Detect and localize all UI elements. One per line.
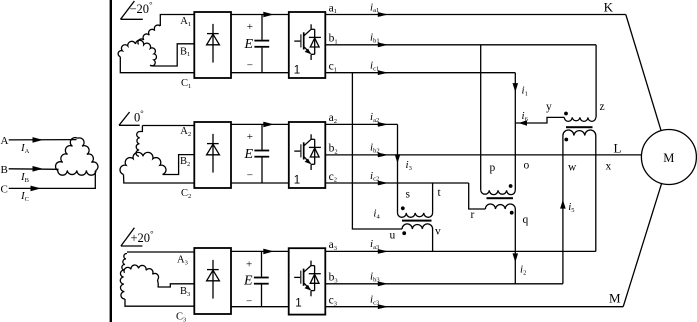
current arrow i1 (513, 83, 519, 92)
phase A input wire (9, 139, 77, 141)
wire C2 (124, 175, 195, 184)
svg-text:M: M (609, 291, 621, 306)
node a2-s vertical wire (397, 124, 399, 212)
current arrow i6 (519, 120, 528, 126)
svg-text:b3: b3 (329, 272, 338, 285)
inverter 1 box (289, 12, 326, 78)
transformer T2 dot q (510, 211, 514, 215)
wire w vertical (562, 136, 564, 284)
bus bar (110, 0, 112, 322)
channel 3 winding lower coil (120, 270, 125, 299)
svg-text:ia1: ia1 (370, 1, 379, 14)
wire C1 (120, 57, 194, 73)
transformer T1 dot s (401, 206, 405, 210)
svg-text:1: 1 (294, 64, 300, 76)
svg-text:w: w (568, 162, 577, 174)
wire B3 (158, 280, 195, 287)
channel 3 winding hill (124, 265, 159, 280)
svg-text:C2: C2 (181, 188, 191, 200)
svg-text:b2: b2 (329, 143, 338, 156)
svg-text:c2: c2 (329, 171, 337, 184)
inverter 2 box (289, 122, 326, 188)
wire c3 output (325, 306, 623, 308)
svg-text:s: s (406, 189, 411, 201)
svg-text:c3: c3 (329, 295, 337, 308)
svg-text:+: + (247, 21, 253, 33)
svg-text:B1: B1 (180, 46, 190, 58)
svg-text:+: + (246, 259, 252, 271)
wire b3 output (325, 283, 563, 285)
svg-text:K: K (604, 0, 614, 15)
transformer T3 upper coil y-z (564, 117, 596, 121)
svg-text:c1: c1 (329, 61, 337, 74)
svg-text:0°: 0° (134, 108, 144, 125)
svg-text:v: v (435, 226, 441, 238)
wire a1 output (325, 14, 626, 16)
current arrow I_C (31, 186, 42, 192)
dc link 3 arrow (263, 249, 274, 255)
channel 2 phase-shift label 0deg (119, 108, 144, 126)
wire b2 output (325, 154, 641, 156)
svg-text:B: B (1, 164, 8, 176)
transformer T3 core (566, 126, 593, 128)
current arrow i2 (513, 253, 519, 262)
svg-text:p: p (490, 162, 496, 174)
svg-text:r: r (471, 209, 475, 221)
svg-text:o: o (524, 160, 530, 172)
dc link 2 arrow (263, 122, 274, 128)
dc link 1 arrow (263, 12, 274, 18)
inverter 2 IGBT (310, 134, 312, 139)
svg-text:i4: i4 (373, 208, 380, 221)
wire B2 (163, 155, 195, 175)
svg-text:i1: i1 (522, 85, 528, 98)
svg-text:IB: IB (20, 171, 30, 184)
wire t vertical (432, 183, 434, 213)
transformer T1 upper coil s-t (398, 213, 433, 217)
channel 2 winding hill (120, 152, 166, 174)
svg-text:y: y (546, 101, 552, 113)
wire c1-o vertical (514, 73, 516, 191)
wire K diagonal (626, 15, 661, 131)
dc link 3 rails and capacitor (231, 250, 289, 252)
svg-text:−: − (246, 295, 252, 307)
svg-text:i2: i2 (520, 264, 526, 277)
current arrow i_a1 (378, 12, 389, 17)
current arrow i5 (560, 200, 566, 209)
svg-text:z: z (600, 101, 605, 113)
current arrow i_b2 (378, 153, 389, 158)
svg-text:ic3: ic3 (370, 294, 379, 307)
dc link 2 rails and capacitor (231, 123, 289, 125)
svg-text:IA: IA (20, 142, 30, 155)
svg-text:E: E (244, 37, 254, 52)
transformer T3 dot w (564, 138, 568, 142)
svg-text:L: L (614, 141, 622, 156)
svg-text:x: x (606, 161, 612, 173)
transformer T1 lower coil u-v (402, 224, 433, 229)
wire z vertical (595, 45, 597, 118)
svg-text:ib2: ib2 (370, 142, 380, 155)
svg-text:ic2: ic2 (370, 170, 379, 183)
svg-text:i6: i6 (522, 110, 529, 123)
rectifier 3 with diode (194, 248, 231, 314)
svg-text:C3: C3 (176, 312, 186, 322)
primary delta winding (55, 138, 98, 176)
svg-text:u: u (390, 230, 396, 242)
svg-text:−: − (247, 60, 253, 72)
svg-text:−20°: −20° (130, 0, 153, 16)
current arrow i_a2 (378, 122, 389, 127)
transformer T2 core (487, 197, 514, 199)
svg-text:A3: A3 (177, 255, 188, 267)
svg-text:i3: i3 (406, 159, 412, 172)
current arrow i_c2 (378, 181, 389, 186)
wire a3 output (325, 250, 596, 252)
phase B input wire (9, 168, 59, 171)
svg-text:1: 1 (295, 298, 301, 310)
svg-text:A1: A1 (180, 16, 191, 28)
current arrow i_c1 (378, 70, 389, 75)
svg-text:ib3: ib3 (370, 271, 380, 284)
wire B1 (150, 44, 194, 66)
svg-text:+20°: +20° (131, 229, 154, 246)
wire c1 to u horizontal (352, 73, 402, 229)
wire v vertical (432, 229, 434, 251)
wire A2 (140, 126, 143, 132)
wire M diagonal (623, 184, 661, 307)
channel 2 winding vertical coil (136, 131, 140, 156)
svg-text:IC: IC (20, 190, 29, 203)
wire q vertical (514, 209, 516, 284)
svg-text:ia3: ia3 (370, 238, 379, 251)
current arrow i_c3 (378, 304, 389, 309)
svg-text:B3: B3 (180, 286, 190, 298)
svg-text:B2: B2 (180, 156, 190, 168)
svg-text:A2: A2 (180, 126, 191, 138)
wire b1 output (325, 44, 596, 46)
svg-text:A: A (1, 135, 9, 147)
transformer T3 lower coil w-x (563, 130, 596, 136)
wire c2 output (325, 182, 468, 184)
wire b1-p vertical (480, 45, 482, 191)
channel 1 secondary winding diagonal (138, 25, 160, 44)
current arrow i3 (395, 154, 401, 163)
wire y step (515, 117, 564, 123)
svg-text:C: C (1, 183, 8, 195)
wire A1 (160, 15, 194, 27)
svg-text:q: q (523, 214, 529, 226)
wire c1 output (325, 72, 515, 74)
svg-text:a1: a1 (329, 2, 337, 15)
svg-text:a3: a3 (329, 239, 337, 252)
phase C input wire (9, 171, 96, 189)
current arrow i_b1 (378, 42, 389, 47)
svg-text:−: − (247, 170, 253, 182)
svg-text:+: + (247, 131, 253, 143)
rectifier 2 with diode (194, 122, 231, 188)
wire r step from c2 (469, 183, 486, 209)
svg-text:M: M (663, 151, 674, 165)
svg-text:b1: b1 (329, 33, 338, 46)
channel 1 secondary winding hill (118, 40, 156, 66)
inverter 1 IGBT (310, 24, 312, 29)
svg-text:i5: i5 (568, 201, 574, 214)
svg-text:a2: a2 (329, 112, 337, 125)
svg-text:E: E (243, 274, 253, 289)
current arrow I_A (33, 137, 44, 143)
transformer T2 dot o (509, 184, 513, 188)
motor M circle (641, 130, 696, 185)
current arrow i_b3 (378, 281, 389, 286)
transformer T2 upper coil p-o (481, 190, 516, 194)
dc link 1 rails and capacitor (231, 14, 289, 16)
svg-text:1: 1 (294, 174, 300, 186)
current arrow I_B (33, 166, 44, 172)
svg-text:t: t (438, 187, 442, 199)
rectifier 1 with diode (194, 12, 231, 78)
wire x vertical (595, 136, 597, 252)
channel 3 winding upper coil (122, 253, 127, 270)
transformer T2 lower coil r-q (485, 204, 515, 209)
transformer T1 core (402, 220, 432, 222)
wire a2 output (325, 123, 397, 125)
channel 3 phase-shift label +20deg (121, 228, 154, 246)
inverter 3 IGBT (310, 261, 312, 266)
transformer T3 dot y (564, 112, 568, 116)
svg-text:ia2: ia2 (370, 111, 379, 124)
wire A3 (127, 251, 194, 253)
svg-text:E: E (244, 147, 254, 162)
svg-text:ic1: ic1 (370, 60, 379, 73)
current arrow i_a3 (378, 249, 389, 254)
channel 1 phase-shift label -20deg (121, 0, 153, 19)
wire C3 (125, 299, 194, 306)
inverter 3 box (289, 248, 326, 314)
transformer T1 dot u (402, 231, 406, 235)
svg-text:C1: C1 (181, 78, 191, 90)
svg-text:ib1: ib1 (370, 32, 380, 45)
